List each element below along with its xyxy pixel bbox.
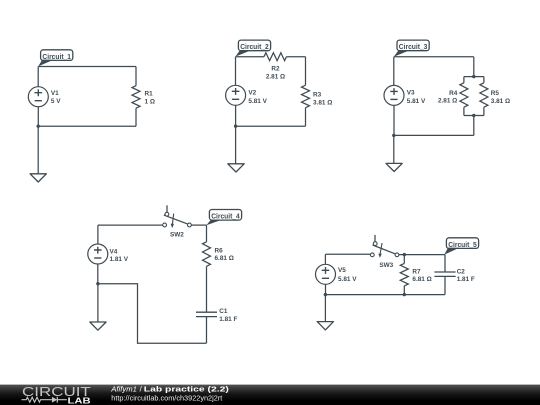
wire R5 top lead	[483, 77, 485, 83]
label V3 5.81 V	[407, 90, 426, 105]
label C2 1.81 F	[457, 268, 475, 283]
wire top-left Circuit_4	[98, 224, 163, 226]
wire ground stem Circuit_5	[324, 295, 326, 322]
svg-text:R2: R2	[271, 65, 280, 72]
svg-text:2.81 Ω: 2.81 Ω	[438, 98, 457, 105]
switch SW3 lever	[373, 245, 396, 254]
wire top Circuit_1	[38, 66, 136, 68]
svg-text:SW2: SW2	[170, 232, 184, 239]
wire C2 top lead	[444, 255, 446, 272]
resistor R6	[203, 242, 211, 266]
wire top-left Circuit_5	[325, 253, 370, 255]
svg-text:3.81 Ω: 3.81 Ω	[491, 98, 510, 105]
svg-text:C2: C2	[457, 268, 466, 275]
wire R6 top lead	[206, 225, 208, 242]
svg-text:Circuit_1: Circuit_1	[42, 54, 71, 61]
footer title Afifym1 / Lab practice (2.2)	[110, 385, 229, 394]
svg-text:5.81 V: 5.81 V	[407, 98, 426, 105]
wire ground stem Circuit_3	[393, 135, 395, 163]
resistor R7	[400, 263, 408, 286]
junction node V4-ground	[96, 282, 99, 285]
wire parallel top bar	[464, 76, 484, 78]
wire R7 bottom lead	[403, 286, 405, 295]
junction node V3-ground	[392, 134, 395, 137]
wire bottom Circuit_1	[38, 125, 136, 127]
logo diode doodle	[52, 397, 67, 403]
wire top Circuit_3	[394, 56, 474, 58]
label R1 1 ohm	[145, 91, 155, 106]
label V4 1.81 V	[110, 248, 129, 262]
resistor R2	[264, 53, 287, 61]
wire parallel top stem	[473, 57, 475, 77]
wire ground stem Circuit_2	[235, 126, 237, 164]
wire top-right Circuit_2	[287, 56, 306, 58]
wire V3 bottom lead	[393, 105, 395, 135]
svg-text:R5: R5	[491, 90, 500, 97]
switch SW2 throw stub	[166, 205, 168, 212]
svg-text:R1: R1	[145, 91, 154, 98]
resistor R5	[480, 83, 488, 107]
voltage source V1	[28, 87, 48, 107]
wire SW2 to R6	[191, 224, 206, 226]
svg-text:5 V: 5 V	[51, 98, 61, 105]
svg-text:LAB: LAB	[68, 396, 91, 405]
wire R4 top lead	[463, 77, 465, 83]
switch SW2 terminals	[163, 223, 167, 227]
wire V3 top lead	[393, 57, 395, 86]
svg-text:Circuit_5: Circuit_5	[448, 242, 477, 249]
label C1 1.81 F	[219, 308, 237, 323]
wire bottom Circuit_5	[325, 294, 445, 296]
wire bottom Circuit_3	[394, 134, 474, 136]
wire parallel bottom stem	[473, 116, 475, 136]
junction node V1-ground	[37, 125, 40, 128]
resistor R3	[302, 85, 310, 108]
svg-text:1 Ω: 1 Ω	[145, 98, 155, 105]
logo resistor doodle	[22, 397, 52, 402]
wire V1 bottom lead	[37, 107, 39, 126]
svg-text:R3: R3	[313, 91, 322, 98]
wire V5 bottom lead	[325, 284, 327, 294]
ground Circuit_1	[30, 174, 46, 182]
svg-text:1.81 F: 1.81 F	[219, 316, 237, 323]
wire ground stem Circuit_1	[37, 126, 39, 174]
wire R1 top lead	[135, 67, 137, 86]
wire SW3 to C2	[399, 254, 445, 256]
voltage source V5	[316, 264, 336, 284]
footer bar	[0, 385, 540, 405]
wire R6 to C1	[206, 266, 208, 312]
switch SW3 throw stub	[374, 235, 376, 242]
svg-text:1.81 V: 1.81 V	[110, 256, 129, 263]
wire bottom Circuit_2	[236, 125, 306, 127]
svg-text:5.81 V: 5.81 V	[338, 276, 357, 283]
capacitor C2	[434, 272, 455, 276]
node label Circuit_3	[394, 40, 429, 57]
wire bottom path Circuit_4	[98, 284, 207, 344]
svg-text:6.81 Ω: 6.81 Ω	[215, 255, 234, 262]
node label Circuit_5	[444, 238, 478, 255]
junction node parallel top	[472, 75, 475, 78]
label R4 2.81 ohm	[438, 90, 458, 105]
svg-text:V5: V5	[338, 267, 346, 274]
wire V2 top lead	[235, 57, 237, 86]
wire R7 top lead	[403, 255, 405, 264]
node label Circuit_1	[38, 50, 73, 67]
svg-text:V1: V1	[51, 90, 59, 97]
svg-text:C1: C1	[219, 308, 228, 315]
wire C1 bottom lead	[206, 317, 208, 344]
resistor R4	[460, 83, 468, 107]
svg-text:5.81 V: 5.81 V	[248, 98, 267, 105]
svg-text:V2: V2	[248, 90, 256, 97]
wire top-left Circuit_2	[236, 56, 265, 58]
svg-text:Circuit_2: Circuit_2	[240, 44, 269, 51]
junction node R7 bottom	[403, 293, 406, 296]
svg-text:6.81 Ω: 6.81 Ω	[412, 276, 431, 283]
node label Circuit_4	[206, 210, 241, 226]
svg-text:R7: R7	[412, 268, 421, 275]
capacitor C1	[196, 312, 217, 316]
switch SW2 actuator arrow	[171, 214, 174, 229]
svg-text:Afifym1: Afifym1	[110, 385, 137, 394]
svg-text:Circuit_4: Circuit_4	[211, 214, 240, 221]
label R6 6.81 ohm	[215, 247, 234, 262]
svg-text:http://circuitlab.com/ch3922yn: http://circuitlab.com/ch3922yn2j2rt	[111, 394, 222, 403]
wire R4 bottom lead	[463, 107, 465, 115]
junction node V2-ground	[234, 125, 237, 128]
wire V4 top lead	[97, 225, 99, 244]
svg-text:3.81 Ω: 3.81 Ω	[313, 99, 332, 106]
label R5 3.81 ohm	[491, 90, 510, 105]
voltage source V2	[226, 85, 246, 105]
svg-text:V3: V3	[407, 90, 415, 97]
label R3 3.81 ohm	[313, 91, 332, 106]
voltage source V3	[384, 85, 404, 105]
svg-text:1.81 F: 1.81 F	[457, 276, 475, 283]
wire parallel bottom bar	[464, 115, 484, 117]
label V2 5.81 V	[248, 90, 267, 105]
ground Circuit_4	[90, 322, 106, 330]
node label Circuit_2	[235, 40, 270, 57]
wire R3 top lead	[305, 57, 307, 85]
wire R3 bottom lead	[305, 108, 307, 127]
switch SW3 terminals	[370, 253, 374, 257]
svg-text:SW3: SW3	[379, 262, 393, 269]
ground Circuit_5	[317, 322, 333, 330]
junction node V5-ground	[324, 293, 327, 296]
label V1 5 V	[51, 90, 61, 105]
svg-text:Lab practice (2.2): Lab practice (2.2)	[144, 385, 230, 394]
svg-text:R4: R4	[449, 90, 458, 97]
ground Circuit_2	[228, 164, 244, 172]
junction node parallel bottom	[472, 114, 475, 117]
switch SW3 actuator arrow	[378, 243, 382, 258]
wire ground stem Circuit_4	[97, 284, 99, 322]
junction node R7 top	[403, 253, 406, 256]
label V5 5.81 V	[338, 267, 357, 283]
svg-text:R6: R6	[215, 247, 224, 254]
wire V4 bottom lead	[97, 264, 99, 284]
resistor R1	[132, 86, 140, 109]
label R2 2.81 ohm	[266, 65, 285, 80]
wire R5 bottom lead	[483, 107, 485, 115]
wire V5 top lead	[324, 254, 326, 264]
wire V2 bottom lead	[235, 105, 237, 126]
voltage source V4	[88, 244, 108, 264]
ground Circuit_3	[386, 163, 402, 171]
wire V1 top lead	[37, 67, 39, 87]
switch SW2 lever	[164, 215, 188, 224]
wire R1 bottom lead	[135, 108, 137, 126]
svg-text:Circuit_3: Circuit_3	[399, 44, 428, 51]
label R7 6.81 ohm	[412, 268, 431, 283]
svg-text:V4: V4	[110, 248, 118, 255]
svg-text:2.81 Ω: 2.81 Ω	[266, 74, 285, 81]
wire C2 bottom lead	[444, 276, 446, 294]
